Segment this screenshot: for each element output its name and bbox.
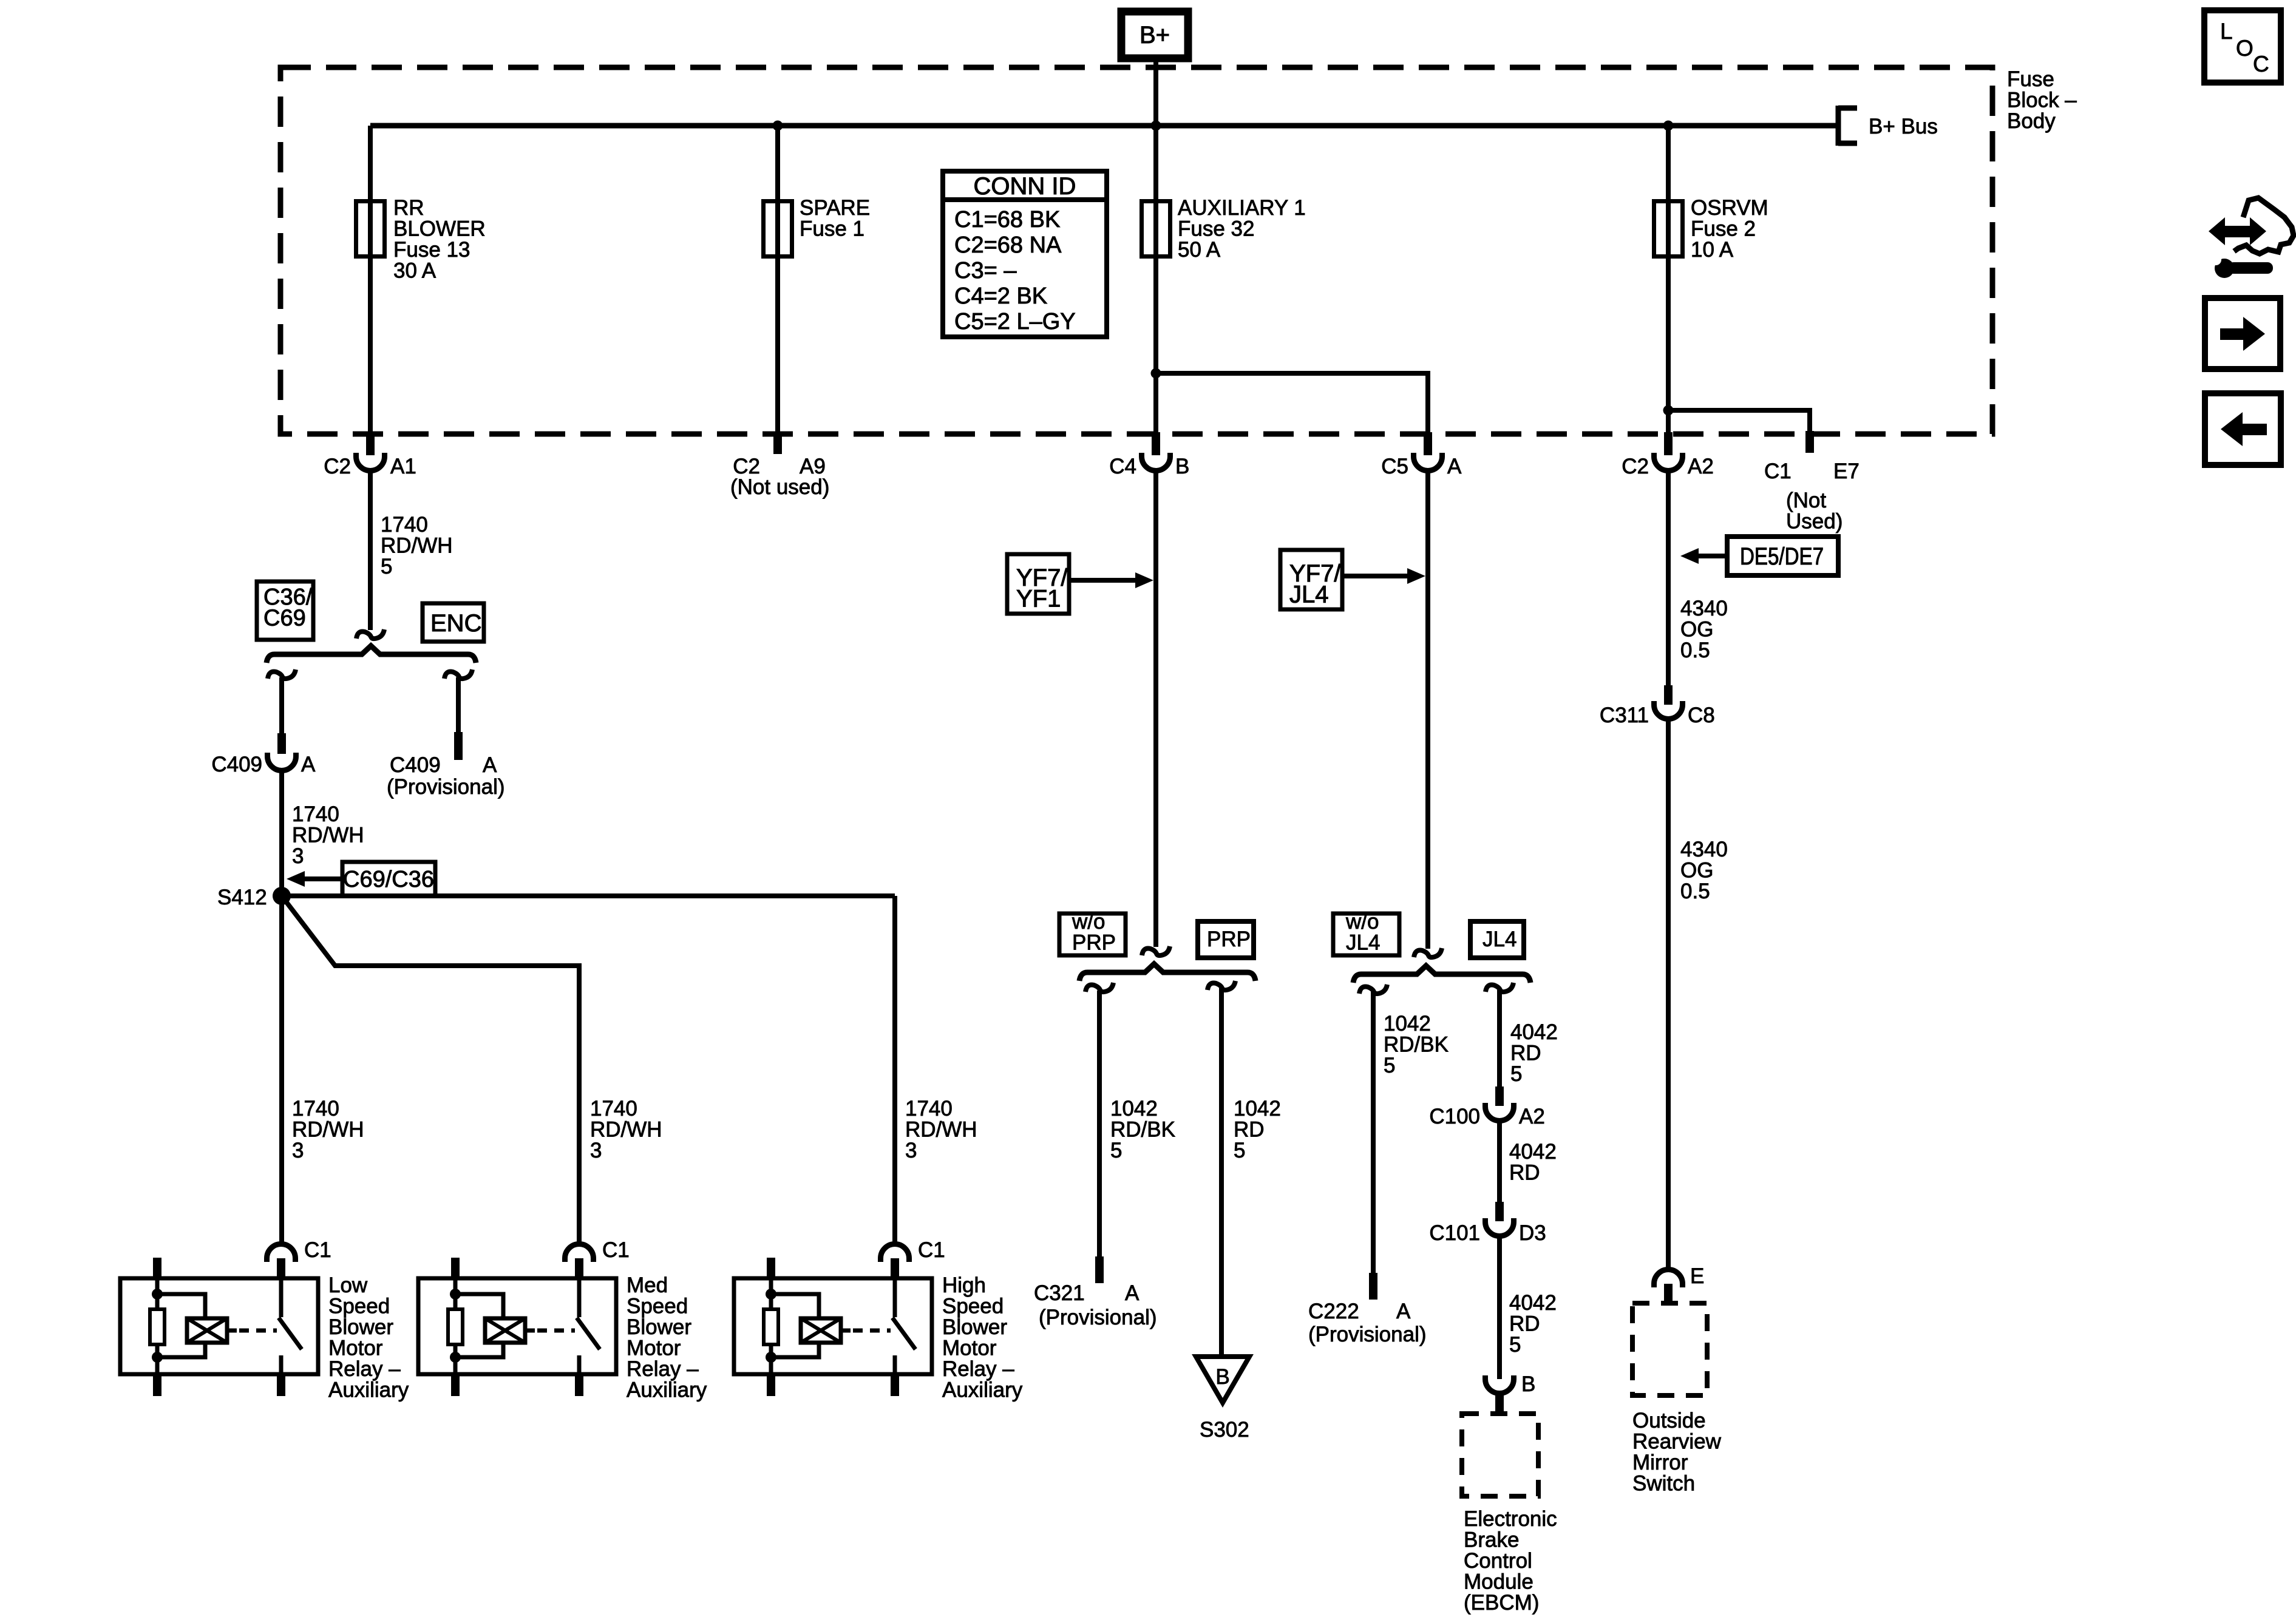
svg-text:D3: D3: [1519, 1221, 1546, 1245]
svg-text:C69: C69: [263, 606, 306, 631]
svg-text:JL4: JL4: [1483, 927, 1517, 951]
svg-text:1042: 1042: [1234, 1097, 1281, 1120]
svg-text:Low: Low: [328, 1273, 368, 1297]
svg-text:3: 3: [905, 1139, 917, 1162]
svg-text:S412: S412: [217, 886, 267, 909]
svg-text:RD/BK: RD/BK: [1110, 1118, 1175, 1142]
svg-text:A: A: [483, 753, 497, 777]
svg-text:3: 3: [590, 1139, 602, 1162]
svg-text:1042: 1042: [1110, 1097, 1158, 1120]
svg-text:RD/WH: RD/WH: [381, 534, 453, 558]
svg-text:Auxiliary: Auxiliary: [627, 1378, 707, 1402]
svg-text:RD: RD: [1510, 1042, 1541, 1065]
svg-text:(Not used): (Not used): [730, 475, 829, 499]
svg-text:4340: 4340: [1680, 597, 1728, 620]
svg-text:Fuse 1: Fuse 1: [800, 217, 864, 241]
svg-text:Auxiliary: Auxiliary: [328, 1378, 409, 1402]
svg-text:Brake: Brake: [1464, 1528, 1519, 1552]
svg-text:A: A: [1125, 1281, 1140, 1305]
svg-text:Blower: Blower: [627, 1315, 691, 1339]
svg-text:5: 5: [1510, 1062, 1522, 1086]
svg-text:Electronic: Electronic: [1464, 1507, 1557, 1531]
svg-text:Used): Used): [1786, 510, 1843, 534]
svg-text:5: 5: [381, 555, 392, 578]
svg-text:C222: C222: [1308, 1300, 1359, 1323]
svg-text:A: A: [1447, 455, 1462, 478]
svg-text:(Provisional): (Provisional): [1039, 1306, 1157, 1329]
svg-text:Speed: Speed: [627, 1295, 688, 1318]
svg-text:1740: 1740: [292, 1097, 339, 1120]
svg-text:E: E: [1690, 1264, 1704, 1288]
svg-text:OG: OG: [1680, 859, 1713, 883]
svg-text:1042: 1042: [1384, 1012, 1431, 1036]
svg-text:RD/WH: RD/WH: [905, 1118, 977, 1142]
svg-text:A1: A1: [390, 455, 416, 478]
svg-text:RD: RD: [1234, 1118, 1265, 1142]
svg-text:1740: 1740: [381, 513, 428, 537]
svg-text:(Provisional): (Provisional): [387, 775, 505, 799]
svg-text:3: 3: [292, 1139, 304, 1162]
svg-text:0.5: 0.5: [1680, 639, 1710, 662]
svg-text:RD/WH: RD/WH: [292, 824, 364, 847]
svg-text:S302: S302: [1200, 1418, 1249, 1442]
svg-text:O: O: [2236, 36, 2254, 61]
svg-text:Motor: Motor: [328, 1337, 383, 1360]
svg-text:C: C: [2253, 52, 2269, 76]
svg-text:PRP: PRP: [1072, 931, 1116, 955]
svg-text:SPARE: SPARE: [800, 196, 870, 220]
svg-text:Module: Module: [1464, 1570, 1533, 1594]
svg-text:BLOWER: BLOWER: [393, 217, 486, 241]
svg-text:C69/C36: C69/C36: [343, 867, 434, 892]
svg-text:Motor: Motor: [627, 1337, 681, 1360]
svg-text:B+: B+: [1140, 22, 1170, 49]
svg-text:C1: C1: [918, 1238, 945, 1262]
svg-text:L: L: [2220, 19, 2233, 44]
svg-text:RD/BK: RD/BK: [1384, 1033, 1449, 1057]
svg-text:30 A: 30 A: [393, 259, 436, 283]
svg-text:DE5/DE7: DE5/DE7: [1740, 543, 1824, 570]
svg-text:C1: C1: [602, 1238, 630, 1262]
svg-text:RR: RR: [393, 196, 424, 220]
svg-text:C5=2 L–GY: C5=2 L–GY: [954, 309, 1076, 334]
svg-text:C5: C5: [1381, 455, 1408, 478]
svg-text:(EBCM): (EBCM): [1464, 1591, 1539, 1615]
svg-text:Motor: Motor: [942, 1337, 997, 1360]
svg-text:AUXILIARY 1: AUXILIARY 1: [1178, 196, 1306, 220]
svg-text:0.5: 0.5: [1680, 880, 1710, 903]
svg-text:C321: C321: [1034, 1281, 1085, 1305]
svg-text:C1=68 BK: C1=68 BK: [954, 207, 1060, 232]
svg-text:C4: C4: [1109, 455, 1136, 478]
svg-text:Control: Control: [1464, 1549, 1532, 1573]
svg-text:OSRVM: OSRVM: [1691, 196, 1768, 220]
svg-text:B: B: [1215, 1365, 1229, 1389]
svg-text:JL4: JL4: [1289, 581, 1329, 608]
svg-text:Outside: Outside: [1632, 1409, 1706, 1432]
svg-text:A2: A2: [1519, 1105, 1545, 1128]
svg-text:Fuse 13: Fuse 13: [393, 238, 470, 262]
svg-text:4340: 4340: [1680, 838, 1728, 861]
svg-text:A: A: [301, 753, 316, 776]
svg-text:C409: C409: [390, 753, 441, 777]
svg-text:Relay –: Relay –: [627, 1357, 699, 1381]
svg-text:High: High: [942, 1273, 986, 1297]
svg-text:Speed: Speed: [942, 1295, 1004, 1318]
svg-text:A2: A2: [1688, 455, 1714, 478]
svg-text:B: B: [1521, 1372, 1535, 1396]
svg-text:Fuse: Fuse: [2007, 67, 2054, 91]
svg-text:C311: C311: [1600, 703, 1649, 727]
svg-text:C8: C8: [1688, 703, 1715, 727]
svg-text:C2: C2: [1622, 455, 1649, 478]
svg-text:Med: Med: [627, 1273, 668, 1297]
svg-text:ENC: ENC: [430, 610, 481, 637]
svg-text:Speed: Speed: [328, 1295, 390, 1318]
svg-text:C3= –: C3= –: [954, 258, 1017, 283]
svg-text:5: 5: [1509, 1333, 1521, 1357]
svg-text:1740: 1740: [292, 802, 339, 826]
svg-text:RD: RD: [1509, 1312, 1540, 1336]
svg-text:1740: 1740: [905, 1097, 953, 1120]
svg-text:Blower: Blower: [942, 1315, 1007, 1339]
svg-text:w/o: w/o: [1072, 910, 1105, 934]
svg-text:5: 5: [1234, 1139, 1245, 1162]
svg-text:Auxiliary: Auxiliary: [942, 1378, 1023, 1402]
svg-text:RD/WH: RD/WH: [590, 1118, 662, 1142]
svg-text:4042: 4042: [1509, 1140, 1557, 1164]
svg-text:C1: C1: [1764, 459, 1792, 483]
svg-text:(Not: (Not: [1786, 489, 1826, 512]
svg-text:3: 3: [292, 844, 304, 868]
svg-text:C2=68 NA: C2=68 NA: [954, 232, 1062, 258]
svg-text:B: B: [1175, 455, 1189, 478]
svg-text:Mirror: Mirror: [1632, 1451, 1688, 1474]
svg-text:YF1: YF1: [1016, 586, 1061, 612]
svg-text:10 A: 10 A: [1691, 238, 1734, 262]
svg-text:B+ Bus: B+ Bus: [1869, 115, 1938, 138]
svg-text:C1: C1: [304, 1238, 331, 1262]
svg-text:C2: C2: [324, 455, 351, 478]
svg-text:5: 5: [1384, 1054, 1395, 1077]
svg-text:Fuse 32: Fuse 32: [1178, 217, 1254, 241]
svg-text:50 A: 50 A: [1178, 238, 1221, 262]
svg-text:Switch: Switch: [1632, 1472, 1695, 1496]
svg-text:Body: Body: [2007, 109, 2056, 133]
svg-text:C101: C101: [1429, 1221, 1480, 1245]
svg-text:1740: 1740: [590, 1097, 637, 1120]
svg-text:RD/WH: RD/WH: [292, 1118, 364, 1142]
svg-text:C100: C100: [1429, 1105, 1480, 1128]
svg-text:w/o: w/o: [1345, 910, 1379, 934]
svg-text:Blower: Blower: [328, 1315, 393, 1339]
svg-text:5: 5: [1110, 1139, 1122, 1162]
svg-text:Relay –: Relay –: [942, 1357, 1014, 1381]
svg-text:(Provisional): (Provisional): [1308, 1323, 1427, 1346]
svg-text:PRP: PRP: [1207, 927, 1251, 951]
svg-text:CONN ID: CONN ID: [974, 173, 1076, 200]
svg-text:Rearview: Rearview: [1632, 1430, 1722, 1454]
svg-text:4042: 4042: [1510, 1020, 1558, 1044]
svg-text:A: A: [1396, 1300, 1411, 1323]
svg-text:JL4: JL4: [1346, 931, 1380, 955]
svg-text:Relay –: Relay –: [328, 1357, 401, 1381]
svg-text:Fuse 2: Fuse 2: [1691, 217, 1756, 241]
svg-text:C409: C409: [211, 753, 262, 776]
svg-text:4042: 4042: [1509, 1291, 1557, 1315]
svg-text:RD: RD: [1509, 1161, 1540, 1185]
svg-text:OG: OG: [1680, 618, 1713, 642]
svg-text:E7: E7: [1833, 459, 1860, 483]
svg-text:C4=2 BK: C4=2 BK: [954, 283, 1047, 309]
svg-text:Block –: Block –: [2007, 89, 2077, 112]
